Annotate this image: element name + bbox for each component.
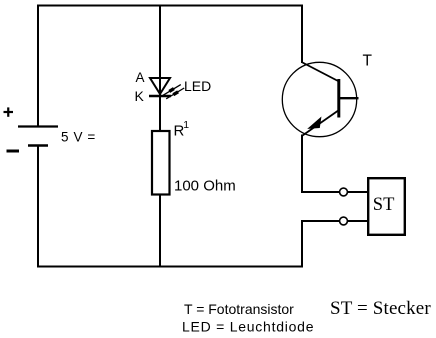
svg-text:100 Ohm: 100 Ohm — [174, 178, 236, 195]
wire middle branch upper — [159, 5, 161, 132]
battery B1 minus plate — [28, 144, 48, 146]
svg-text:1: 1 — [183, 119, 189, 131]
battery minus sign — [7, 150, 20, 153]
LED arrow 2 — [166, 88, 184, 99]
LED D1 triangle — [150, 78, 170, 94]
svg-text:LED: LED — [184, 78, 211, 94]
wire to terminal 2 — [301, 220, 339, 222]
LED D1 cathode bar — [149, 95, 171, 97]
svg-text:A: A — [136, 70, 145, 85]
wire from bottom rail up — [301, 220, 303, 267]
terminal circle 2 — [340, 217, 348, 225]
transistor emitter arrowhead — [310, 119, 320, 128]
battery plus sign — [4, 107, 14, 116]
svg-text:T = Fototransistor: T = Fototransistor — [184, 301, 294, 317]
svg-text:LED = Leuchtdiode: LED = Leuchtdiode — [182, 318, 314, 334]
transistor emitter diagonal — [303, 110, 340, 136]
wire to terminal 1 — [301, 191, 339, 193]
transistor base lead — [339, 97, 359, 99]
svg-text:ST: ST — [373, 195, 395, 215]
transistor T circle — [282, 62, 356, 136]
LED arrow 1 — [163, 85, 181, 96]
transistor collector diagonal — [302, 62, 340, 82]
terminal circle 1 — [340, 188, 348, 196]
wire right rail / collector lead — [301, 5, 303, 64]
wire left rail lower — [37, 145, 39, 268]
label R1 — [174, 119, 190, 140]
svg-text:5 V =: 5 V = — [61, 130, 96, 145]
wire emitter vertical — [301, 135, 303, 194]
transistor base bar — [337, 79, 340, 118]
wire left rail upper — [37, 5, 39, 127]
wire middle branch lower — [159, 194, 161, 267]
svg-text:T: T — [363, 52, 373, 69]
wire bottom rail — [37, 266, 303, 268]
wire terminal 2 to box — [348, 220, 369, 222]
wire top rail — [37, 5, 303, 7]
svg-text:ST = Stecker: ST = Stecker — [330, 298, 431, 319]
resistor R1 body — [152, 131, 170, 195]
wire terminal 1 to box — [348, 191, 369, 193]
battery B1 plus plate — [18, 125, 58, 127]
svg-text:K: K — [135, 88, 145, 104]
connector ST box — [368, 178, 405, 235]
